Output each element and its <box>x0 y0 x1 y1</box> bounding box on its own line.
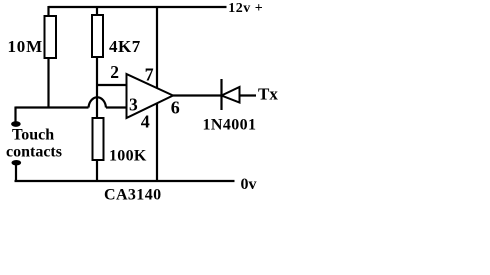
svg-text:100K: 100K <box>109 148 147 165</box>
svg-text:Tx: Tx <box>258 85 278 104</box>
svg-text:6: 6 <box>171 98 180 118</box>
svg-text:3: 3 <box>129 95 138 115</box>
svg-text:4: 4 <box>141 112 150 132</box>
svg-text:CA3140: CA3140 <box>104 187 162 204</box>
svg-text:0v: 0v <box>241 176 257 193</box>
svg-text:10M: 10M <box>8 37 43 56</box>
svg-text:4K7: 4K7 <box>109 37 141 56</box>
svg-text:Touch: Touch <box>12 127 54 144</box>
svg-text:7: 7 <box>145 64 154 84</box>
svg-text:12v +: 12v + <box>228 1 263 16</box>
svg-text:1N4001: 1N4001 <box>203 116 257 133</box>
svg-text:contacts: contacts <box>6 144 62 161</box>
svg-text:2: 2 <box>110 62 119 82</box>
